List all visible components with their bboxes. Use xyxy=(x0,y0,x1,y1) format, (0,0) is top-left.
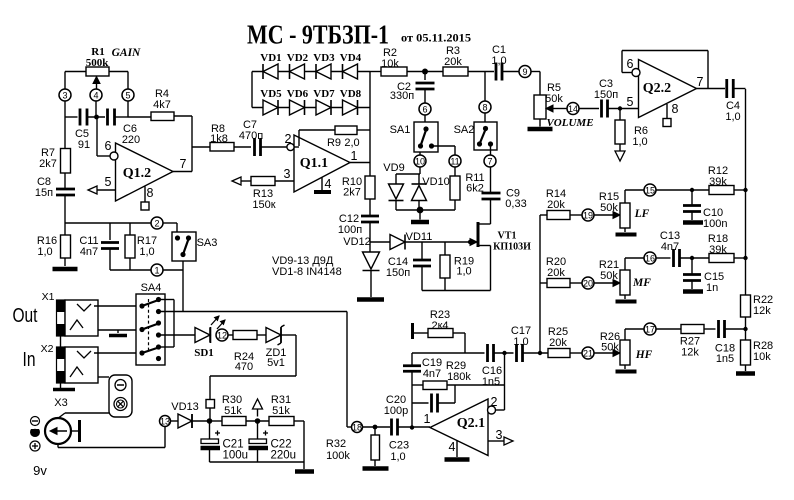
svg-text:4: 4 xyxy=(449,440,456,454)
svg-text:39k: 39k xyxy=(709,176,727,188)
svg-text:220u: 220u xyxy=(271,450,297,462)
svg-text:180k: 180k xyxy=(447,371,471,383)
svg-text:39k: 39k xyxy=(709,244,727,256)
svg-text:HF: HF xyxy=(635,349,653,361)
svg-text:X3: X3 xyxy=(54,397,67,409)
svg-text:VD2: VD2 xyxy=(287,52,309,64)
svg-text:4: 4 xyxy=(93,90,98,100)
svg-text:Q1.1: Q1.1 xyxy=(300,156,328,171)
svg-text:5v1: 5v1 xyxy=(267,357,285,369)
svg-text:6: 6 xyxy=(627,57,634,71)
svg-text:VD7: VD7 xyxy=(313,88,335,100)
svg-text:7: 7 xyxy=(180,157,187,171)
svg-text:5: 5 xyxy=(125,90,130,100)
svg-text:13: 13 xyxy=(160,416,170,426)
svg-text:4k7: 4k7 xyxy=(153,99,171,111)
svg-text:100п: 100п xyxy=(338,224,362,236)
svg-text:GAIN: GAIN xyxy=(112,47,141,59)
svg-text:2,0: 2,0 xyxy=(344,137,359,149)
svg-text:In: In xyxy=(23,349,36,371)
svg-text:2к4: 2к4 xyxy=(431,320,448,332)
svg-text:100n: 100n xyxy=(703,218,727,230)
svg-text:1,0: 1,0 xyxy=(37,246,52,258)
svg-text:21: 21 xyxy=(583,348,593,358)
svg-text:SA4: SA4 xyxy=(141,282,162,294)
svg-text:Q1.2: Q1.2 xyxy=(123,166,151,181)
svg-text:8: 8 xyxy=(147,186,154,200)
svg-text:1: 1 xyxy=(154,265,159,275)
svg-text:3: 3 xyxy=(284,167,291,181)
svg-text:Out: Out xyxy=(13,305,38,327)
svg-text:1,0: 1,0 xyxy=(390,451,405,463)
svg-text:5: 5 xyxy=(105,175,112,189)
svg-text:КП103И: КП103И xyxy=(493,242,531,253)
svg-text:Q2.2: Q2.2 xyxy=(643,81,671,96)
svg-text:X2: X2 xyxy=(41,343,54,355)
svg-text:50k: 50k xyxy=(545,93,563,105)
svg-text:15: 15 xyxy=(645,185,655,195)
svg-text:50k: 50k xyxy=(600,270,618,282)
svg-text:6: 6 xyxy=(105,139,112,153)
svg-text:4n7: 4n7 xyxy=(423,368,441,380)
svg-text:10k: 10k xyxy=(753,351,771,363)
svg-text:4n7: 4n7 xyxy=(661,241,679,253)
svg-text:5: 5 xyxy=(627,95,634,109)
svg-text:VD9: VD9 xyxy=(383,162,404,174)
svg-text:1,0: 1,0 xyxy=(632,136,647,148)
svg-text:SA1: SA1 xyxy=(390,124,411,136)
svg-text:1,0: 1,0 xyxy=(725,111,740,123)
svg-text:9v: 9v xyxy=(33,463,47,478)
svg-text:VD6: VD6 xyxy=(287,88,309,100)
svg-text:12: 12 xyxy=(217,330,227,340)
svg-text:VT1: VT1 xyxy=(498,231,517,242)
svg-text:X1: X1 xyxy=(42,291,55,303)
svg-text:VD12: VD12 xyxy=(343,236,371,248)
svg-text:VD8: VD8 xyxy=(340,88,362,100)
svg-text:19: 19 xyxy=(583,210,593,220)
svg-text:15п: 15п xyxy=(35,187,53,199)
svg-text:МС - 9ТБЗП-1: МС - 9ТБЗП-1 xyxy=(247,20,389,50)
svg-text:LF: LF xyxy=(634,208,650,220)
svg-text:20k: 20k xyxy=(549,337,567,349)
svg-text:SA2: SA2 xyxy=(454,124,475,136)
svg-text:10k: 10k xyxy=(381,58,399,70)
svg-text:330п: 330п xyxy=(390,90,414,102)
svg-text:Q2.1: Q2.1 xyxy=(457,416,485,431)
svg-text:VD10: VD10 xyxy=(422,176,450,188)
svg-text:12k: 12k xyxy=(753,305,771,317)
svg-text:9: 9 xyxy=(522,67,527,77)
svg-text:50k: 50k xyxy=(601,342,619,354)
svg-text:1n5: 1n5 xyxy=(716,353,734,365)
svg-text:R32: R32 xyxy=(326,438,346,450)
svg-text:VD3: VD3 xyxy=(313,52,335,64)
svg-text:1,0: 1,0 xyxy=(456,266,471,278)
svg-text:1,0: 1,0 xyxy=(139,246,154,258)
svg-text:2k7: 2k7 xyxy=(39,158,57,170)
svg-text:2: 2 xyxy=(491,395,498,409)
svg-text:470: 470 xyxy=(235,361,253,373)
svg-text:2: 2 xyxy=(154,218,159,228)
svg-text:VD1-8 IN4148: VD1-8 IN4148 xyxy=(272,266,342,278)
svg-text:17: 17 xyxy=(645,324,655,334)
svg-text:VD5: VD5 xyxy=(260,88,282,100)
svg-text:20k: 20k xyxy=(547,267,565,279)
svg-text:1.0: 1.0 xyxy=(513,336,528,348)
svg-text:2: 2 xyxy=(285,132,292,146)
svg-text:100u: 100u xyxy=(223,450,249,462)
svg-text:500k: 500k xyxy=(86,57,110,69)
svg-text:0,33: 0,33 xyxy=(505,198,526,210)
svg-text:8: 8 xyxy=(482,102,487,112)
svg-text:18: 18 xyxy=(352,422,362,432)
svg-text:3: 3 xyxy=(62,90,67,100)
svg-text:6k2: 6k2 xyxy=(466,183,484,195)
svg-text:VD13: VD13 xyxy=(171,401,199,413)
svg-text:VD1: VD1 xyxy=(260,52,281,64)
svg-text:150п: 150п xyxy=(386,267,410,279)
svg-text:150п: 150п xyxy=(594,89,618,101)
svg-text:3: 3 xyxy=(496,428,503,442)
svg-text:20k: 20k xyxy=(444,56,462,68)
svg-text:1k8: 1k8 xyxy=(210,133,228,145)
svg-text:R9: R9 xyxy=(327,137,341,149)
svg-text:91: 91 xyxy=(78,139,90,151)
svg-text:100p: 100p xyxy=(384,405,408,417)
svg-text:100k: 100k xyxy=(326,450,350,462)
svg-text:150к: 150к xyxy=(252,199,275,211)
svg-text:470п: 470п xyxy=(239,130,263,142)
svg-text:16: 16 xyxy=(645,253,655,263)
svg-text:1: 1 xyxy=(351,149,358,163)
svg-text:12k: 12k xyxy=(681,347,699,359)
svg-text:1: 1 xyxy=(424,412,431,426)
svg-text:SA3: SA3 xyxy=(197,237,218,249)
svg-text:20k: 20k xyxy=(547,199,565,211)
svg-text:20: 20 xyxy=(583,278,593,288)
svg-text:MF: MF xyxy=(632,277,651,289)
svg-text:7: 7 xyxy=(487,156,492,166)
svg-text:6: 6 xyxy=(422,104,427,114)
svg-text:4: 4 xyxy=(325,177,332,191)
svg-text:220: 220 xyxy=(122,134,140,146)
svg-text:51k: 51k xyxy=(224,405,242,417)
svg-text:4n7: 4n7 xyxy=(80,246,98,258)
svg-text:VD11: VD11 xyxy=(406,231,433,243)
svg-text:14: 14 xyxy=(568,104,578,114)
svg-text:1,0: 1,0 xyxy=(491,55,506,67)
svg-text:51k: 51k xyxy=(272,405,290,417)
svg-text:10: 10 xyxy=(415,156,425,166)
svg-text:VD4: VD4 xyxy=(340,52,362,64)
svg-text:1n5: 1n5 xyxy=(482,376,500,388)
svg-text:8: 8 xyxy=(672,102,679,116)
svg-text:C23: C23 xyxy=(389,440,409,452)
svg-text:1n: 1n xyxy=(706,282,718,294)
svg-text:2k7: 2k7 xyxy=(343,187,361,199)
svg-text:7: 7 xyxy=(697,75,704,89)
svg-text:VOLUME: VOLUME xyxy=(546,117,593,129)
svg-text:SD1: SD1 xyxy=(194,347,214,359)
svg-text:11: 11 xyxy=(450,156,459,166)
svg-text:50k: 50k xyxy=(600,202,618,214)
svg-text:от 05.11.2015: от 05.11.2015 xyxy=(401,31,471,45)
